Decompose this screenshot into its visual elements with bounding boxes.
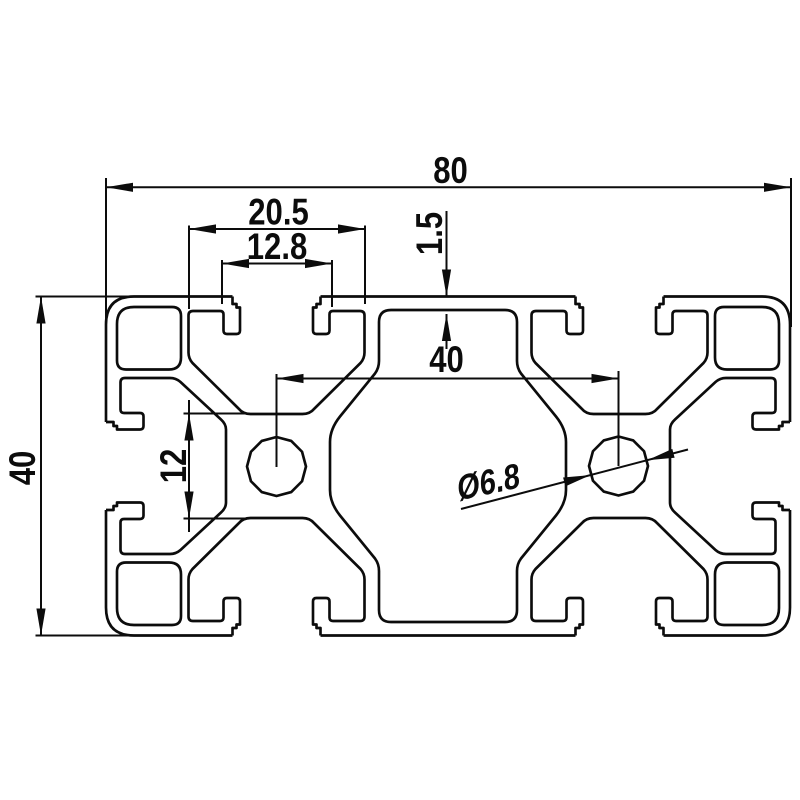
svg-text:12.8: 12.8 bbox=[247, 227, 307, 268]
svg-text:40: 40 bbox=[429, 340, 464, 381]
svg-text:12: 12 bbox=[154, 449, 195, 484]
svg-text:40: 40 bbox=[3, 451, 44, 486]
svg-text:80: 80 bbox=[433, 151, 468, 192]
svg-text:1.5: 1.5 bbox=[410, 212, 451, 255]
